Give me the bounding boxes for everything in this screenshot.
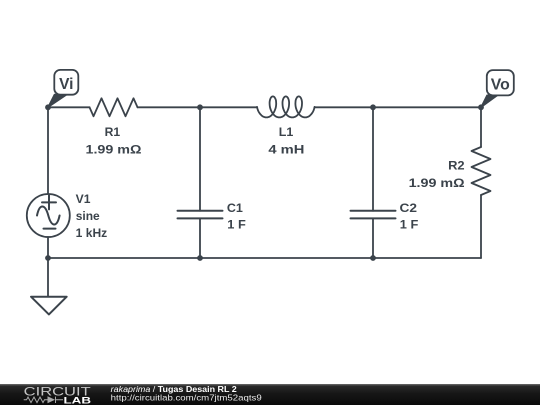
svg-text:1 F: 1 F xyxy=(400,218,419,232)
svg-text:R1: R1 xyxy=(105,125,121,139)
node Vo junction dot xyxy=(478,104,484,110)
logo doodle resistor and diode xyxy=(24,397,63,403)
svg-text:http://circuitlab.com/cm7jtm52: http://circuitlab.com/cm7jtm52aqts9 xyxy=(111,393,262,403)
svg-text:1.99 mΩ: 1.99 mΩ xyxy=(409,176,465,190)
wire V1 bottom lead xyxy=(47,237,49,258)
svg-text:1.99 mΩ: 1.99 mΩ xyxy=(86,143,142,157)
flag Vo pointer xyxy=(481,95,498,107)
flag Vi pointer xyxy=(48,95,67,108)
ground xyxy=(31,297,67,315)
inductor L1 xyxy=(257,96,315,117)
svg-text:4 mH: 4 mH xyxy=(268,143,304,157)
capacitor C1 top lead xyxy=(199,107,201,211)
logo diode triangle xyxy=(48,396,56,403)
capacitor C2 plates xyxy=(351,211,396,219)
resistor R2 xyxy=(472,147,491,195)
wire V1 top lead xyxy=(47,107,49,194)
node C2 top junction dot xyxy=(370,104,376,110)
svg-text:LAB: LAB xyxy=(64,396,92,405)
svg-text:Vi: Vi xyxy=(59,76,73,93)
wire top-left node to R1 xyxy=(48,106,90,108)
wire top-right corner down to R2 xyxy=(480,107,482,147)
voltage source V1 circle xyxy=(27,194,70,237)
V1 plus sign xyxy=(42,195,56,209)
svg-text:1 F: 1 F xyxy=(227,218,246,232)
footer bar xyxy=(0,384,540,405)
node C1 bottom junction dot xyxy=(197,255,203,261)
wire bottom rail xyxy=(48,257,481,259)
wire R1 to L1 xyxy=(138,106,258,108)
svg-text:C1: C1 xyxy=(227,201,243,215)
svg-text:Vo: Vo xyxy=(491,76,510,93)
wire L1 to top-right corner xyxy=(315,106,481,108)
svg-text:V1: V1 xyxy=(76,192,91,206)
node Vi junction dot xyxy=(45,104,51,110)
svg-text:1 kHz: 1 kHz xyxy=(76,226,108,240)
svg-text:R2: R2 xyxy=(448,159,465,173)
capacitor C1 plates xyxy=(178,211,223,219)
resistor R1 xyxy=(90,98,138,116)
V1 sine wave xyxy=(37,207,60,225)
wire ground lead xyxy=(47,258,49,297)
svg-text:sine: sine xyxy=(76,209,100,223)
V1 minus sign xyxy=(44,228,56,230)
flag Vo box xyxy=(487,70,514,95)
flag Vi box xyxy=(54,70,78,95)
wire R2 bottom lead xyxy=(480,195,482,258)
svg-text:L1: L1 xyxy=(279,125,294,139)
svg-text:C2: C2 xyxy=(400,201,418,215)
node C2 bottom junction dot xyxy=(370,255,376,261)
node C1 top junction dot xyxy=(197,104,203,110)
capacitor C2 bottom lead xyxy=(372,218,374,258)
capacitor C1 bottom lead xyxy=(199,218,201,258)
capacitor C2 top lead xyxy=(372,107,374,211)
node ground junction dot xyxy=(45,255,51,261)
